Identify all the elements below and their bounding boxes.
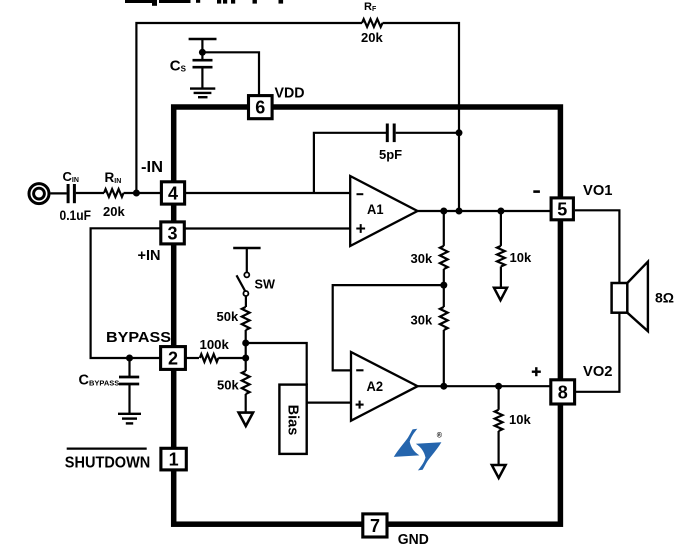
wire: 30k chain vertical <box>443 211 445 246</box>
wire: between 30k resistors <box>443 269 445 307</box>
svg-text:A1: A1 <box>367 201 384 217</box>
pin 4 box <box>161 182 184 204</box>
wire: A2 inverting input to 30k midpoint <box>333 285 444 370</box>
svg-text:VO1: VO1 <box>583 182 613 199</box>
wire: RF to VO1 node <box>383 23 460 211</box>
wire: CBYPASS to ground <box>128 384 130 414</box>
node: 30k midpoint <box>440 282 447 289</box>
resistor 100k <box>200 354 219 362</box>
svg-text:30k: 30k <box>411 313 433 328</box>
pin 2 box <box>161 347 186 370</box>
svg-text:BYPASS: BYPASS <box>106 329 171 346</box>
wire: 10k upper to arrow ground <box>500 267 502 288</box>
svg-text:50k: 50k <box>217 378 239 393</box>
label SHUTDOWN with overline <box>65 449 151 472</box>
wire: connector to CIN <box>51 192 67 194</box>
node: input junction <box>133 190 140 197</box>
svg-text:8: 8 <box>558 382 568 402</box>
wire: CIN to RIN <box>76 192 104 194</box>
svg-text:2: 2 <box>168 349 178 369</box>
wire: 100k to divider node <box>218 357 245 359</box>
switch SW terminal bar <box>233 247 260 250</box>
svg-text:3: 3 <box>167 223 177 243</box>
wire: divider node to bias box <box>246 343 307 385</box>
resistor RF <box>362 19 383 27</box>
svg-text:5: 5 <box>557 199 567 219</box>
svg-text:10k: 10k <box>510 250 532 265</box>
wire: 30k lower to A2 output row <box>443 330 445 386</box>
switch SW <box>237 248 250 296</box>
wire: stub down to CS node <box>201 39 203 60</box>
ground (below CBYPASS) <box>118 414 141 424</box>
polarity plus near pin 8 <box>532 367 541 376</box>
wire: A1 output row to pin 5 <box>418 210 557 212</box>
wire: divider vertical <box>245 330 247 371</box>
resistor 10k upper <box>497 246 505 267</box>
svg-text:20k: 20k <box>103 204 125 219</box>
svg-text:A2: A2 <box>367 378 384 394</box>
ST logo <box>394 429 443 471</box>
svg-text:1: 1 <box>169 450 179 470</box>
pin 5 box <box>551 198 573 220</box>
resistor 30k lower <box>440 307 448 330</box>
pin 8 box <box>551 380 575 404</box>
wire: pin 5 to speaker <box>575 210 619 284</box>
node: A1 out / 10k <box>497 208 504 215</box>
wire: bypass node down to CBYPASS <box>128 358 130 377</box>
capacitor C 5pF <box>387 124 394 143</box>
svg-text:50k: 50k <box>217 309 239 324</box>
node: 5pF/feedback junction <box>456 129 463 136</box>
resistor 50k upper <box>242 307 250 330</box>
wire: 5pF to feedback node <box>396 132 459 134</box>
resistor 10k lower <box>495 410 503 431</box>
node: A1 out / 30k <box>440 208 447 215</box>
wire: pin 2 to 100k <box>185 357 199 359</box>
ground arrow (below 50k) <box>239 413 253 426</box>
node: A2 out / 30k <box>440 383 447 390</box>
node: A1 out / feedback <box>456 208 463 215</box>
wire: pin 3 to A1 non-inverting input <box>185 227 350 229</box>
VDD supply stub terminal <box>189 38 217 41</box>
bias block <box>279 385 306 454</box>
svg-text:6: 6 <box>255 97 265 117</box>
op-amp A1 <box>350 176 417 246</box>
resistor 30k upper <box>440 246 448 269</box>
node: A2 out / 10k <box>495 383 502 390</box>
wire: 10k upper drop <box>500 211 502 246</box>
svg-text:®: ® <box>437 432 443 440</box>
capacitor CS <box>193 60 213 67</box>
svg-text:+IN: +IN <box>138 247 161 264</box>
svg-text:0.1uF: 0.1uF <box>60 208 92 223</box>
wire: bias to A2 non-inverting input <box>307 402 351 404</box>
node: divider/100k junction <box>242 355 249 362</box>
ground arrow (below 10k lower) <box>492 465 506 478</box>
wire: CS to ground <box>201 67 203 88</box>
capacitor CIN <box>68 184 74 203</box>
wire: feedback loop from input node up and across the top <box>136 23 362 194</box>
pin 7 box <box>363 514 387 537</box>
wire: CS node to pin 6 <box>202 52 259 95</box>
svg-text:VO2: VO2 <box>583 363 613 380</box>
svg-text:7: 7 <box>370 516 380 536</box>
svg-text:-IN: -IN <box>141 159 163 176</box>
svg-text:GND: GND <box>398 532 429 548</box>
capacitor CBYPASS <box>119 377 139 384</box>
wire: pin 4 to A1 inverting input <box>185 192 350 194</box>
pin 1 box <box>161 448 186 470</box>
speaker 8ohm <box>612 262 648 332</box>
svg-text:4: 4 <box>168 183 178 203</box>
ground (below CS) <box>190 89 215 98</box>
svg-text:VDD: VDD <box>275 85 305 102</box>
input connector J1 <box>29 184 49 204</box>
wire: pin 8 to speaker <box>575 311 619 392</box>
wire: 10k lower drop <box>498 386 500 410</box>
cut-off title text fragments <box>125 0 283 6</box>
pin 3 box <box>161 222 185 244</box>
svg-text:5pF: 5pF <box>379 147 402 162</box>
resistor 50k lower <box>242 371 250 394</box>
svg-text:100k: 100k <box>200 337 230 352</box>
svg-text:8Ω: 8Ω <box>655 290 674 306</box>
pin 6 box <box>249 96 273 119</box>
wire: RIN to pin 4 <box>124 192 162 194</box>
wire: A2 output row to pin 8 <box>418 385 556 387</box>
wire: 10k lower to arrow ground <box>498 431 500 465</box>
svg-text:10k: 10k <box>509 412 531 427</box>
node: CS junction <box>199 49 206 56</box>
wire: SW to 50k upper <box>245 296 247 307</box>
svg-text:30k: 30k <box>411 251 433 266</box>
svg-text:SHUTDOWN: SHUTDOWN <box>65 455 151 472</box>
wire: pin 3 left to bypass branch <box>91 228 161 358</box>
node: divider/bias junction <box>242 340 249 347</box>
capacitor 5pF wire left branch to -IN <box>314 133 386 193</box>
resistor RIN <box>104 189 124 197</box>
svg-text:SW: SW <box>255 278 275 292</box>
wire: 50k lower to arrow ground <box>245 394 247 413</box>
svg-text:20k: 20k <box>361 30 383 45</box>
op-amp A2 <box>351 352 418 421</box>
svg-text:Bias: Bias <box>285 405 301 436</box>
ground arrow (below 10k upper) <box>494 288 507 300</box>
node: bypass junction <box>126 355 133 362</box>
polarity minus near pin 5 <box>533 190 540 193</box>
IC package outline <box>174 107 561 524</box>
